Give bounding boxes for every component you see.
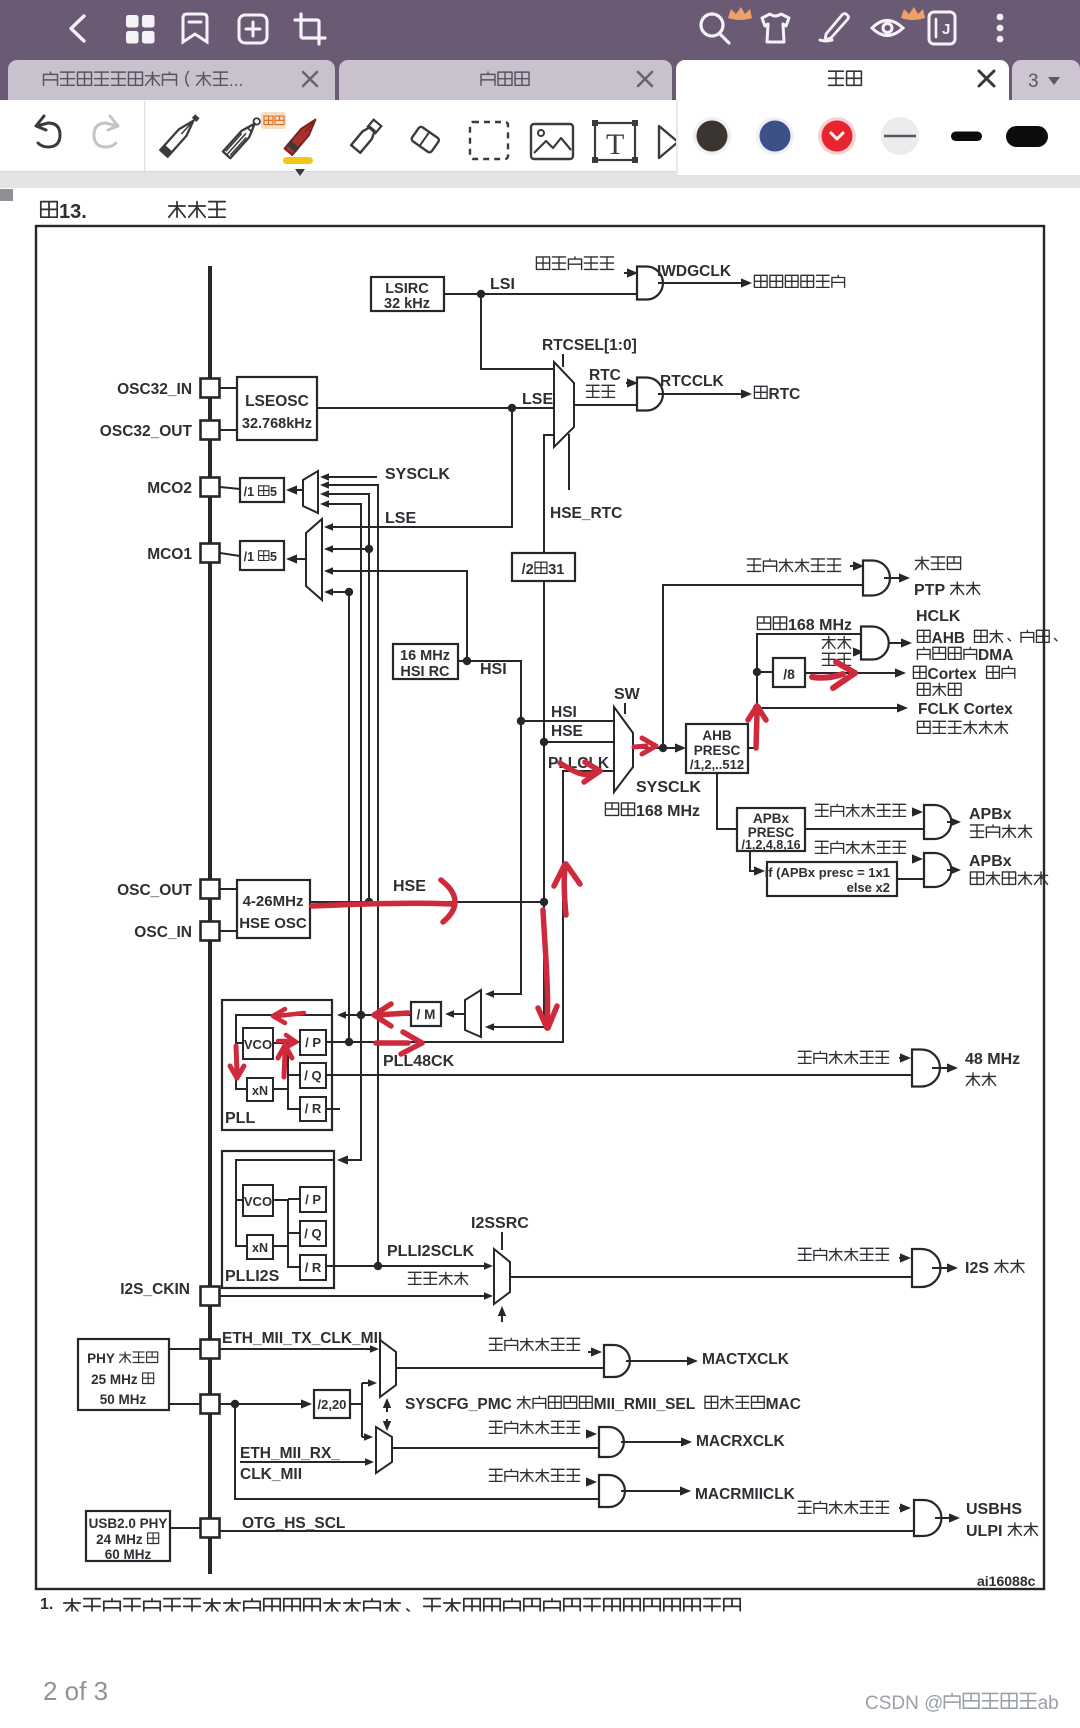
wire MCO1 out [220, 553, 306, 564]
mux ETH TX [380, 1340, 396, 1397]
wire HSE_RTC [544, 435, 554, 553]
wire PLLI2S internal input [236, 1160, 334, 1246]
label 最高 168 MHz sw [605, 803, 700, 820]
wire USB out [935, 1513, 960, 1522]
select tick SW [624, 703, 626, 714]
junction LSE [508, 404, 516, 412]
phy box USB2.0 PHY [86, 1511, 170, 1562]
wire div8 feed [757, 671, 773, 673]
label SYSCLK mco [385, 466, 450, 483]
wire MCO2 out [220, 485, 303, 494]
enable arrow USB [899, 1503, 911, 1512]
divider box /2,20 [314, 1390, 350, 1418]
label ULPI 时钟 [966, 1523, 1038, 1540]
wire div231 to HSE [543, 581, 545, 902]
wire HSE down to Mmux [485, 902, 544, 1031]
label USBHS [966, 1501, 1022, 1518]
port pad OSC32_IN [201, 379, 220, 398]
wire MCO2 in PLLM vertical [320, 500, 361, 1015]
label MACRMIICLK [695, 1486, 796, 1503]
wire MCO2 in HSE vertical [320, 490, 369, 902]
and-gate USBHS [914, 1500, 941, 1536]
label PLL48CK [383, 1053, 455, 1070]
pll box VCO i2s [243, 1185, 273, 1216]
page indicator 2 of 3 [43, 1676, 108, 1707]
oscillator box HSE OSC [237, 880, 310, 938]
label 外设时钟使能 i2s [798, 1248, 888, 1260]
label 时钟使能 hclk [822, 636, 850, 665]
port pad OSC_OUT [201, 880, 220, 899]
pll block PLLI2S outer [222, 1151, 334, 1288]
stroke width small [951, 132, 982, 142]
tab count [1028, 71, 1060, 92]
label PLLI2SCLK [387, 1243, 475, 1260]
tab3 close [979, 71, 994, 86]
wire mux1 to MACTX [396, 1367, 604, 1369]
red annotation up-arrow AHB [748, 706, 766, 748]
label 外设时钟使能 macrmii [489, 1469, 579, 1481]
tab2 title [481, 72, 529, 85]
wire M out [337, 1011, 411, 1019]
oscillator box 16MHz HSI RC [393, 644, 458, 680]
label MCO1 [147, 546, 192, 563]
diagram border frame [36, 226, 1044, 1589]
divider box MCO2 /1到5 [240, 478, 284, 502]
port pad OSC32_OUT [201, 421, 220, 440]
label 外设时钟 apb [970, 825, 1031, 838]
wire HSI to SW mux [521, 720, 614, 722]
label HSE [393, 878, 426, 895]
label 到 AHB 总线、内核、 [917, 630, 1057, 647]
enable arrow MACTX [588, 1347, 602, 1356]
mux MCO1 [306, 519, 322, 600]
mux MCO2 [303, 471, 318, 513]
pll box /Q [300, 1063, 326, 1088]
color swatch custom [881, 117, 919, 155]
topbar back chevron [71, 16, 84, 41]
enable arrow PTP [850, 561, 864, 570]
mux SW [614, 707, 633, 792]
port pad ETH_TX_PORT [201, 1340, 220, 1359]
wire HSE [310, 901, 544, 903]
tab 1 [8, 60, 335, 100]
wire HCLK out [888, 638, 912, 647]
svg-text:...: ... [229, 71, 243, 90]
toolbar badge 限免 [261, 112, 286, 129]
color swatch red selected [818, 117, 856, 155]
label SYSCFG_PMC [405, 1396, 801, 1413]
label FCLK Cortex [918, 701, 1013, 718]
svg-text:CSDN @: CSDN @ [865, 1693, 943, 1714]
wire mux2 to MACRX [392, 1447, 599, 1449]
enable arrow RTC [626, 378, 638, 387]
port pad ETH_RX_PORT [201, 1395, 220, 1414]
wire APBx timer out [947, 865, 961, 874]
wire PHY to port1 [169, 1348, 201, 1350]
label SYSCLK sw [636, 779, 701, 796]
wire MCO1 in HSI [324, 567, 467, 661]
red annotation left-arrow PLL-in [273, 1009, 304, 1023]
content gray strip [0, 172, 1080, 188]
and-gate PTP [863, 561, 890, 596]
label OSC_OUT [117, 882, 192, 899]
label RTC 使能 [586, 367, 620, 397]
wire PLL internal dividers [273, 1042, 300, 1109]
pll box /P [300, 1030, 326, 1055]
label OSC32_OUT [100, 423, 193, 440]
toolbar eraser [402, 120, 440, 153]
wire RMII line [219, 1399, 312, 1408]
footnote clipped [40, 1596, 740, 1614]
wire div220 fanout [350, 1379, 377, 1441]
label PTP 时钟 [914, 582, 980, 599]
mux PLL source [465, 990, 481, 1037]
pll box /Q i2s [300, 1221, 326, 1246]
wire stub below RTC mux [568, 434, 570, 490]
wire HSI [458, 661, 521, 998]
label LSE mco [385, 510, 416, 527]
enable arrow HCLK [853, 647, 864, 656]
pll box VCO [243, 1028, 273, 1059]
wire port stubs OSC [220, 889, 237, 931]
wire PLLCLK [326, 771, 614, 1042]
junction LSI [477, 290, 485, 298]
label HSE sw [551, 723, 583, 740]
toolbar undo [36, 116, 60, 147]
junction PLLI2SCLK [374, 1262, 382, 1270]
pll box /P i2s [300, 1187, 326, 1212]
label MCO2 [147, 480, 192, 497]
label OSC32_IN [117, 381, 192, 398]
red annotation swoosh PLLCLK [560, 762, 600, 782]
junction HSE-SW [540, 738, 548, 746]
label ETH_MII_RX_ [240, 1445, 340, 1462]
wire APBx down to if [750, 851, 765, 876]
toolbar highlighter [351, 119, 382, 153]
wire PLL internal vco [236, 1042, 243, 1044]
svg-text:3: 3 [1028, 71, 1039, 92]
label 到 Cortex 系统 [913, 666, 1014, 683]
top app bar [0, 0, 1080, 57]
red annotation right-arrow PLLCLK [376, 1032, 422, 1054]
junction RMII [231, 1400, 239, 1408]
wire div8 out [805, 668, 906, 677]
svg-text:T: T [606, 128, 624, 161]
enable arrow MACRX [586, 1429, 597, 1438]
junction HSI to SW [517, 717, 525, 725]
color panel shadow [676, 100, 1080, 175]
wire SYSCLK out [633, 743, 686, 752]
wire AHB out up [748, 634, 861, 748]
port pad I2S_CKIN [201, 1287, 220, 1306]
label RTCSEL[1:0] [542, 337, 637, 354]
wire PLL internal input [236, 1015, 332, 1089]
label 以太网 [915, 557, 960, 570]
wire PLLI2SCLK [326, 1262, 493, 1270]
tab2 close [638, 72, 652, 86]
svg-text:J: J [942, 21, 950, 38]
label 定时器时钟 [970, 872, 1047, 885]
topbar card icon [929, 12, 955, 44]
wire if out [897, 878, 924, 880]
toolbar red pen selected [283, 116, 320, 176]
enable arrow 48M [899, 1053, 911, 1062]
oscillator box LSEOSC 32.768kHz [237, 377, 317, 440]
red annotation up-arrow sysclk-vert [554, 864, 580, 915]
label MACTXCLK [702, 1351, 790, 1368]
label 外设时钟使能 48m [798, 1051, 888, 1063]
label LSI [490, 276, 515, 293]
toolbar redo [94, 116, 118, 147]
and-gate 48MHz [912, 1050, 940, 1087]
pll box /R [300, 1097, 326, 1121]
label OTG_HS_SCL [242, 1515, 345, 1532]
port pad MCO1 [201, 544, 220, 563]
label 定时器 [917, 683, 961, 695]
red annotation HSE underline [312, 903, 452, 906]
junction PLLCLK-mco [345, 1038, 353, 1046]
label 到独立看门狗 [754, 275, 844, 287]
wire APBx periph out [947, 817, 961, 826]
and-gate I2S [912, 1249, 940, 1287]
junction SYSCLK [659, 744, 667, 752]
wire HSE to SW mux [544, 741, 614, 743]
label 到 RTC [754, 386, 800, 403]
label HSI sw [551, 704, 577, 721]
toolbar shape icon [659, 126, 678, 158]
red annotation right-arrow div8 [812, 662, 855, 688]
wire AHB down to APBx [717, 773, 737, 829]
tab3 title [829, 71, 862, 85]
wire PLLI2S internal dividers [273, 1199, 300, 1267]
select tick RTCSEL [562, 354, 564, 367]
topbar eye icon [872, 21, 903, 36]
tab 3 active [676, 60, 1009, 100]
enable arrow I2S [899, 1253, 911, 1262]
junction fclk [753, 704, 761, 712]
prescaler box APBx PRESC [737, 808, 805, 852]
label 外设时钟使能 usb [798, 1501, 888, 1513]
wire PLL R stub [326, 1108, 340, 1110]
wire MACTX out [626, 1356, 698, 1365]
red annotation right-arrow SW-out [634, 738, 656, 754]
label 外设时钟使能 mactx [489, 1338, 579, 1350]
label LSE [522, 391, 553, 408]
wire M to PLLI2S [337, 1015, 361, 1165]
select arrow I2S bottom [498, 1306, 506, 1322]
and-gate MACTX [604, 1345, 630, 1377]
topbar crown badge eye [901, 7, 925, 20]
wire I2S gate out [932, 1263, 958, 1272]
wire LSI [444, 293, 637, 295]
color swatch dark [693, 117, 731, 155]
topbar crown badge search [728, 7, 752, 20]
wire mux to M [445, 1010, 465, 1018]
label CLK_MII [240, 1466, 302, 1483]
label HCLK [916, 608, 961, 625]
topbar grid icon [126, 15, 155, 44]
topbar crop icon [295, 14, 325, 44]
label ai16088c [977, 1573, 1036, 1589]
label 存储器和 DMA [917, 647, 1013, 664]
wire port stubs OSC32 [220, 388, 237, 430]
enable arrow APB2 [912, 854, 923, 863]
red annotation left-arrow M-out [374, 1004, 408, 1026]
tab counter zone [1012, 60, 1080, 100]
junction div8 [753, 668, 761, 676]
label I2SSRC [471, 1215, 529, 1232]
mux ETH RX [376, 1427, 392, 1473]
scroll handle square [0, 189, 13, 201]
and-gate MACRMII [599, 1475, 625, 1507]
topbar menu dots [997, 14, 1004, 43]
wire APBx out [805, 828, 924, 830]
red annotation up-arrow xN [278, 1045, 292, 1077]
red annotation down-arrow VCO [230, 1046, 244, 1078]
topbar pen icon [820, 14, 849, 42]
enable arrow MACRMII [586, 1477, 597, 1486]
mux I2S [494, 1249, 510, 1304]
wire MCO2 in PLLI2S vertical [320, 481, 378, 1266]
wire MCO1 in HSE [324, 545, 369, 553]
and-gate RTC [637, 378, 663, 411]
label I2S_CKIN [120, 1281, 190, 1298]
figure title 图 13. 时钟树 [41, 201, 225, 223]
tab bar background [0, 57, 1080, 100]
wire SYSCLK to PTP [663, 585, 863, 748]
tab1 title [44, 71, 244, 90]
enable arrow APB1 [912, 807, 923, 816]
label HSE_RTC [550, 505, 622, 522]
wire MCO2 in SYSCLK [320, 473, 377, 481]
wire FCLK [757, 703, 908, 712]
topbar add-page icon [239, 15, 267, 43]
red annotation arrow VCO-P [278, 1035, 296, 1048]
color swatch blue [756, 117, 794, 155]
label SW [614, 686, 641, 703]
junction HSE-vert [540, 898, 548, 906]
label MACRXCLK [696, 1433, 785, 1450]
pll box /R i2s [300, 1255, 326, 1280]
label 时钟 48m [966, 1073, 995, 1086]
and-gate HCLK [861, 627, 889, 660]
label IWDGCLK [657, 263, 732, 280]
stroke width large [1006, 126, 1048, 147]
red annotation HSE arc [441, 880, 455, 922]
wire LSI to RTC mux [481, 294, 554, 369]
and-gate IWDG [637, 267, 663, 300]
wire MCO1 in LSE [324, 408, 512, 531]
wire PLLI2S internal vco [236, 1199, 243, 1201]
label PLLI2S [225, 1268, 280, 1285]
toolbar select dashed [470, 122, 508, 159]
tab 2 [339, 60, 672, 100]
divider box /8 [773, 658, 805, 687]
and-gate APBx timer [924, 853, 951, 887]
red annotation down-stroke HSE-vert [538, 910, 557, 1028]
toolbar separator [144, 101, 146, 171]
mux RTCSEL [554, 362, 574, 447]
label 最高 168 MHz hclk [757, 617, 852, 634]
label PLL [225, 1110, 255, 1127]
wire ETH RX line [240, 1458, 374, 1466]
label PLLCLK [548, 755, 610, 772]
port pad USB_PORT [201, 1519, 220, 1538]
wire 48M out [932, 1063, 958, 1072]
wire MACRX out [621, 1437, 692, 1446]
divider box /M [411, 1002, 441, 1026]
topbar shirt icon [762, 14, 789, 42]
label 外部时钟 [408, 1272, 467, 1284]
wire ETH TX line [219, 1345, 379, 1353]
label APBx periph [969, 806, 1012, 823]
pll box xN i2s [247, 1235, 273, 1259]
and-gate MACRX [599, 1427, 624, 1457]
wire OTG line [219, 1530, 914, 1532]
wire MCO1 in PLL [324, 588, 349, 1042]
pll box xN [247, 1078, 273, 1101]
toolbar background [0, 100, 1080, 172]
conditional box if APBx presc [765, 862, 897, 896]
toolbar text icon [592, 120, 638, 163]
toolbar image icon [531, 124, 573, 159]
and-gate APBx periph [924, 805, 951, 839]
wire PLL48CK [326, 1074, 912, 1076]
prescaler box AHB PRESC [686, 724, 748, 773]
tab1 close [303, 72, 317, 86]
junction MCO1-HSE [365, 545, 373, 553]
label I2S 时钟 [965, 1260, 1024, 1277]
label 自由运行时钟 [917, 721, 1007, 733]
phy box PHY 以太网 [78, 1339, 169, 1410]
topbar search icon [701, 14, 729, 43]
toolbar pencil [223, 116, 263, 159]
junction MCO1-PLL [345, 588, 353, 596]
label APBx timer [969, 853, 1012, 870]
wire USB stub [170, 1527, 201, 1529]
wire IWDGCLK out [658, 278, 752, 287]
port pad MCO2 [201, 478, 220, 497]
wire MACRMII out [621, 1486, 691, 1495]
port pad OSC_IN [201, 922, 220, 941]
oscillator box LSIRC 32kHz [371, 277, 444, 312]
label 外设时钟使能 macrx [489, 1421, 579, 1433]
label 外设时钟使能 apb1 [815, 804, 905, 816]
wire I2S out [510, 1276, 912, 1278]
junction HSI near box [463, 657, 471, 665]
select tick I2SSRC [501, 1232, 503, 1250]
topbar bookmark icon [183, 14, 207, 42]
divider box /2到31 [512, 553, 575, 581]
label HSI near box [480, 661, 507, 678]
divider box MCO1 /1到5 [240, 541, 284, 570]
junction M-PLLI2S [357, 1011, 365, 1019]
label OSC_IN [134, 924, 192, 941]
label 48 MHz [965, 1051, 1020, 1068]
wire PHY to port2 [169, 1403, 201, 1405]
label 外设时钟使能 ptp [747, 559, 840, 572]
label 看门狗使能 [536, 257, 613, 270]
wire RTC mux out [574, 404, 637, 406]
junction HSE-mco [365, 898, 373, 906]
pll block PLL outer [222, 1000, 332, 1130]
label 外设时钟使能 apb2 [815, 841, 905, 853]
select arrows SYSCFG [383, 1398, 391, 1431]
enable arrow IWDG [624, 268, 638, 277]
main IO port bus line [208, 266, 212, 1574]
label RTCCLK [660, 373, 725, 390]
svg-text:ab: ab [1038, 1693, 1059, 1714]
